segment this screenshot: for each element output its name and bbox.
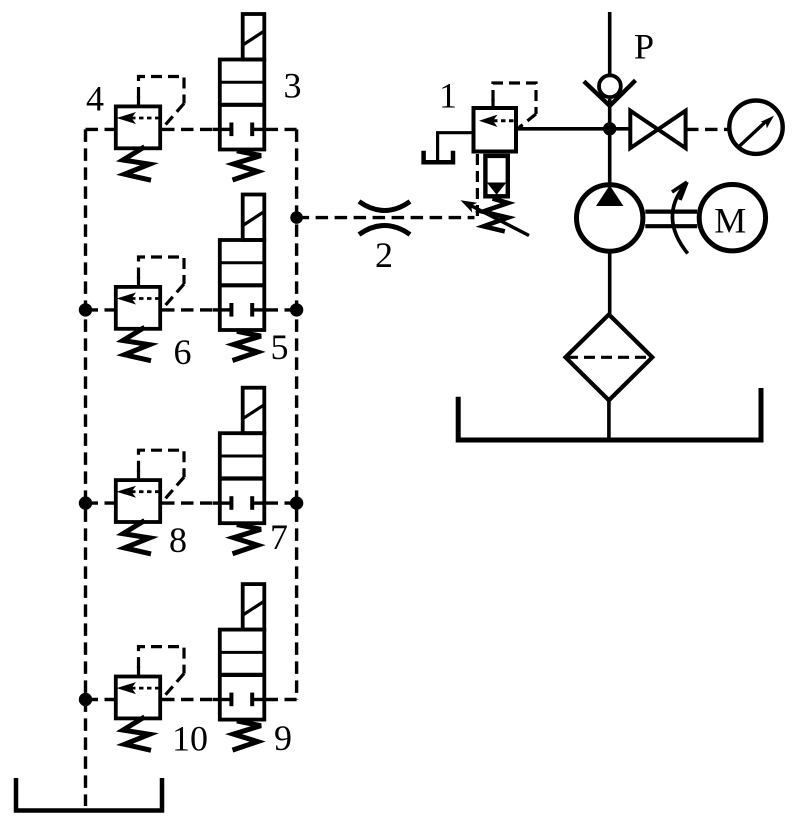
svg-text:6: 6 — [174, 332, 192, 372]
svg-text:9: 9 — [274, 718, 292, 758]
svg-text:5: 5 — [271, 327, 289, 367]
svg-text:3: 3 — [284, 66, 302, 106]
svg-text:M: M — [714, 200, 746, 240]
svg-text:7: 7 — [270, 517, 288, 557]
svg-text:P: P — [634, 27, 654, 67]
svg-text:8: 8 — [169, 520, 187, 560]
svg-text:10: 10 — [172, 719, 208, 759]
svg-text:4: 4 — [86, 79, 104, 119]
svg-text:1: 1 — [439, 76, 457, 116]
svg-text:2: 2 — [375, 235, 393, 275]
